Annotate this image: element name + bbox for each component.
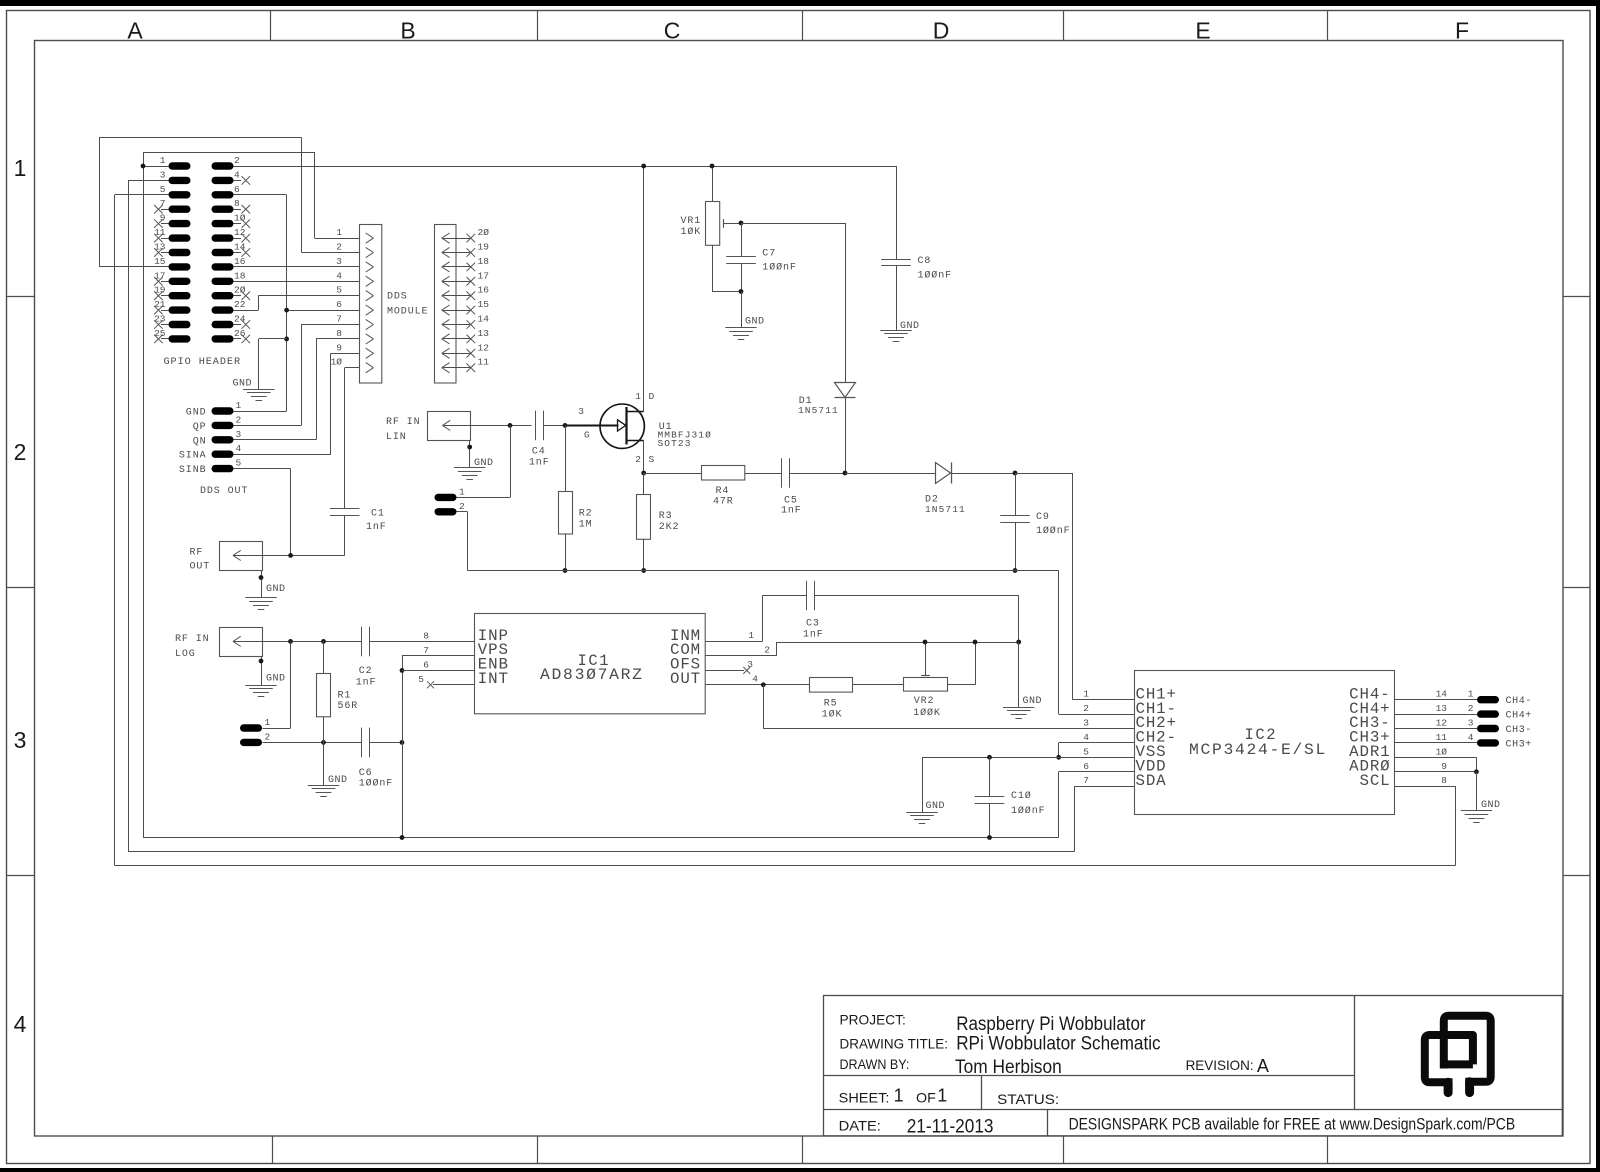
resistor R1 56R bbox=[323, 641, 325, 673]
svg-text:14: 14 bbox=[478, 314, 490, 325]
svg-text:1ØØnF: 1ØØnF bbox=[918, 270, 953, 282]
svg-text:MODULE: MODULE bbox=[387, 307, 428, 318]
wire: R1 bottom to ground bbox=[323, 742, 325, 785]
svg-text:2K2: 2K2 bbox=[659, 522, 680, 533]
svg-text:G: G bbox=[584, 430, 590, 441]
capacitor C6 100nF bbox=[361, 728, 363, 758]
wire: GPIO pin16 to DDS pin3 bbox=[234, 266, 360, 268]
wire: source down bbox=[643, 440, 645, 473]
potentiometer VR1 10K bbox=[712, 166, 714, 202]
svg-text:1ØØnF: 1ØØnF bbox=[762, 262, 797, 274]
svg-text:16: 16 bbox=[234, 256, 246, 267]
junction R1 bottom bbox=[321, 740, 326, 745]
wire: ADR to ground bbox=[1476, 772, 1478, 811]
svg-text:RF: RF bbox=[190, 548, 204, 559]
wire: SINA to DDS pin9 bbox=[234, 454, 331, 456]
svg-text:STATUS:: STATUS: bbox=[997, 1091, 1059, 1107]
wire: GPIO pin6 GND net bbox=[234, 194, 287, 196]
svg-text:GND: GND bbox=[266, 674, 286, 685]
junction C9 bottom bbox=[1013, 568, 1018, 573]
svg-text:3: 3 bbox=[747, 659, 753, 670]
svg-text:SOT23: SOT23 bbox=[658, 438, 692, 449]
svg-text:2Ø: 2Ø bbox=[478, 227, 490, 238]
wire: VPS pin7 riser bbox=[402, 655, 474, 657]
svg-text:SDA: SDA bbox=[1136, 772, 1167, 790]
svg-text:8: 8 bbox=[1441, 775, 1447, 786]
DesignSpark logo bbox=[1425, 1016, 1491, 1083]
svg-text:1ØØnF: 1ØØnF bbox=[359, 778, 394, 790]
capacitor C7 100nF bbox=[741, 223, 743, 256]
svg-text:CH3-: CH3- bbox=[1506, 725, 1532, 736]
wire: COM pin2 net bbox=[705, 655, 776, 657]
svg-text:2: 2 bbox=[635, 454, 641, 465]
DDS module connector left pins 1-10 bbox=[360, 225, 382, 384]
wire: D2 out to CH1+ bbox=[1015, 473, 1073, 475]
svg-text:1nF: 1nF bbox=[366, 522, 387, 533]
RF IN LIN ground stem bbox=[469, 440, 471, 468]
svg-text:R5: R5 bbox=[824, 699, 838, 710]
GPIO unused pin X marks left bbox=[161, 209, 169, 211]
capacitor C10 100nF bbox=[989, 757, 991, 796]
svg-text:4: 4 bbox=[1468, 732, 1474, 743]
IC IC1 AD8307ARZ body bbox=[475, 614, 706, 714]
svg-text:1: 1 bbox=[635, 391, 641, 402]
svg-text:B: B bbox=[400, 18, 415, 44]
svg-text:1M: 1M bbox=[579, 520, 593, 531]
wire: branch to ground bbox=[259, 338, 287, 340]
DDS module connector right pins 20-11 bbox=[435, 225, 457, 384]
wire: CH2- pin4 bbox=[1059, 742, 1134, 744]
svg-text:F: F bbox=[1455, 18, 1469, 44]
svg-text:4: 4 bbox=[234, 169, 240, 180]
svg-text:11: 11 bbox=[478, 357, 490, 368]
svg-text:GND: GND bbox=[328, 775, 348, 786]
svg-text:7: 7 bbox=[336, 314, 342, 325]
wire: GPIO pin15 to DDS pin2 bbox=[99, 266, 169, 268]
svg-text:2: 2 bbox=[234, 155, 240, 166]
svg-text:QP: QP bbox=[193, 422, 207, 433]
svg-text:E: E bbox=[1195, 18, 1210, 44]
svg-text:GND: GND bbox=[900, 321, 920, 332]
svg-text:REVISION:: REVISION: bbox=[1186, 1057, 1254, 1073]
svg-text:CH3+: CH3+ bbox=[1506, 739, 1532, 750]
svg-text:17: 17 bbox=[478, 270, 489, 281]
diode D2 1N5711 bbox=[936, 463, 951, 484]
junction pad1 riser LOG bbox=[288, 639, 293, 644]
junction SINB/RFOUT bbox=[288, 553, 293, 558]
GPIO unused pin X marks right bbox=[234, 180, 242, 182]
svg-text:GND: GND bbox=[474, 458, 494, 469]
svg-text:6: 6 bbox=[1083, 761, 1089, 772]
wire: ADR0 pin9 bbox=[1394, 771, 1476, 773]
wire: ADR1 pin10 bbox=[1394, 757, 1476, 759]
svg-text:SHEET:: SHEET: bbox=[839, 1090, 890, 1106]
IC IC2 MCP3424-E/SL body bbox=[1135, 671, 1395, 815]
ground at RF IN LIN bbox=[454, 467, 485, 469]
capacitor C1 1nF bbox=[330, 508, 360, 510]
svg-text:4: 4 bbox=[1083, 732, 1089, 743]
junction VR1 wiper node bbox=[739, 221, 744, 226]
junction C10 top bbox=[987, 755, 992, 760]
svg-text:8: 8 bbox=[423, 631, 429, 642]
svg-text:2: 2 bbox=[236, 414, 242, 425]
wire: OFS pin3 no-connect bbox=[705, 670, 744, 672]
junction D1/C5/R4 bbox=[843, 471, 848, 476]
svg-text:15: 15 bbox=[154, 256, 166, 267]
svg-text:1ØØnF: 1ØØnF bbox=[1036, 525, 1071, 537]
svg-text:A: A bbox=[127, 18, 143, 44]
svg-text:1ØK: 1ØK bbox=[681, 226, 702, 238]
svg-text:5: 5 bbox=[160, 184, 166, 195]
svg-text:18: 18 bbox=[234, 270, 246, 281]
svg-text:DDS OUT: DDS OUT bbox=[200, 486, 248, 497]
svg-text:AD83Ø7ARZ: AD83Ø7ARZ bbox=[540, 666, 644, 684]
svg-text:2: 2 bbox=[1468, 703, 1474, 714]
svg-text:3: 3 bbox=[14, 727, 27, 753]
RF IN LIN pads 1,2 bbox=[435, 494, 457, 501]
junction R1 top bbox=[321, 639, 326, 644]
svg-text:RPi Wobbulator Schematic: RPi Wobbulator Schematic bbox=[956, 1034, 1161, 1055]
svg-text:1nF: 1nF bbox=[356, 678, 377, 689]
svg-text:5: 5 bbox=[336, 285, 342, 296]
resistor R5 10K bbox=[810, 678, 853, 693]
svg-text:CH4-: CH4- bbox=[1506, 696, 1532, 707]
svg-text:GPIO HEADER: GPIO HEADER bbox=[164, 357, 242, 368]
junction C3/COM bbox=[1016, 640, 1021, 645]
svg-text:4: 4 bbox=[236, 443, 242, 454]
svg-text:1: 1 bbox=[459, 486, 465, 497]
svg-text:3: 3 bbox=[1083, 718, 1089, 729]
svg-text:R2: R2 bbox=[579, 509, 593, 520]
junction C6/riser bbox=[400, 740, 405, 745]
svg-text:C9: C9 bbox=[1036, 512, 1050, 523]
resistor R4 47R bbox=[644, 473, 702, 475]
capacitor C9 100nF bbox=[1015, 473, 1017, 516]
RF IN LOG pads 1,2 bbox=[240, 724, 262, 731]
svg-text:GND: GND bbox=[926, 801, 946, 812]
wire: GPIO pin2 top rail bbox=[234, 166, 897, 168]
svg-text:C3: C3 bbox=[806, 619, 820, 630]
svg-text:OUT: OUT bbox=[190, 562, 211, 573]
svg-text:1nF: 1nF bbox=[803, 630, 824, 641]
svg-text:4: 4 bbox=[14, 1011, 27, 1037]
junction source node bbox=[641, 471, 646, 476]
svg-text:RF IN: RF IN bbox=[175, 634, 210, 645]
GPIO header 26-pin pads bbox=[169, 162, 191, 169]
svg-text:OUT: OUT bbox=[670, 670, 701, 688]
wire: GND pad bbox=[234, 411, 287, 413]
RF OUT connector bbox=[220, 542, 263, 571]
junction R3/gnd rail bbox=[641, 568, 646, 573]
svg-text:D: D bbox=[649, 391, 655, 402]
diode D1 1N5711 bbox=[835, 383, 856, 398]
junction VR1/top rail bbox=[710, 164, 715, 169]
svg-text:1: 1 bbox=[937, 1086, 947, 1106]
svg-text:5: 5 bbox=[236, 458, 242, 469]
wire: node to D2 bbox=[845, 473, 936, 475]
svg-text:1: 1 bbox=[336, 227, 342, 238]
svg-text:8: 8 bbox=[336, 328, 342, 339]
svg-text:1N5711: 1N5711 bbox=[798, 405, 839, 416]
svg-text:S: S bbox=[649, 454, 655, 465]
svg-text:21-11-2013: 21-11-2013 bbox=[907, 1117, 994, 1138]
svg-text:13: 13 bbox=[478, 328, 490, 339]
wire: GPIO pin18 to DDS pin4 bbox=[234, 281, 360, 283]
svg-text:1: 1 bbox=[748, 630, 754, 641]
svg-text:SCL: SCL bbox=[1360, 772, 1391, 790]
svg-text:1: 1 bbox=[14, 155, 27, 181]
junction riser/VDD rail bbox=[400, 835, 405, 840]
wire: DDS pin10 to C1 bbox=[345, 367, 359, 369]
ground at RF IN LOG bbox=[245, 685, 276, 687]
svg-text:5: 5 bbox=[1083, 746, 1089, 757]
DDS OUT connector pads GND,QP,QN,SINA,SINB bbox=[212, 407, 234, 414]
svg-text:RF IN: RF IN bbox=[386, 417, 421, 428]
capacitor C2 1nF bbox=[361, 627, 363, 657]
svg-text:A: A bbox=[1257, 1056, 1269, 1076]
svg-text:3: 3 bbox=[160, 169, 166, 180]
svg-text:5: 5 bbox=[418, 674, 424, 685]
wire: CH1- pin2 bbox=[1059, 714, 1134, 716]
capacitor C4 1nF bbox=[535, 411, 537, 441]
svg-text:C1: C1 bbox=[371, 509, 385, 520]
wire: ENB pin6 bbox=[402, 670, 474, 672]
svg-text:C: C bbox=[664, 18, 681, 44]
svg-text:OF: OF bbox=[916, 1090, 936, 1106]
svg-text:C1Ø: C1Ø bbox=[1011, 790, 1032, 802]
wire: LOG to C2/INP bbox=[262, 641, 362, 643]
svg-text:1Ø: 1Ø bbox=[331, 357, 343, 368]
wire: OUT pin4 bbox=[705, 684, 810, 686]
svg-text:SINB: SINB bbox=[179, 465, 207, 476]
wire: RF OUT node bbox=[262, 555, 345, 557]
svg-text:C2: C2 bbox=[359, 666, 373, 677]
svg-text:DRAWN BY:: DRAWN BY: bbox=[840, 1056, 910, 1072]
svg-text:6: 6 bbox=[336, 299, 342, 310]
svg-text:56R: 56R bbox=[338, 701, 359, 712]
svg-text:1: 1 bbox=[1468, 689, 1474, 700]
svg-text:1: 1 bbox=[160, 155, 166, 166]
svg-text:DDS: DDS bbox=[387, 292, 408, 303]
svg-text:C8: C8 bbox=[918, 256, 932, 267]
resistor R3 2K2 bbox=[643, 473, 645, 494]
svg-text:1: 1 bbox=[894, 1086, 904, 1106]
svg-text:VR1: VR1 bbox=[681, 216, 702, 227]
ground at COM bbox=[1003, 707, 1034, 709]
wire: C7 to ground bbox=[741, 292, 743, 328]
svg-text:DRAWING TITLE:: DRAWING TITLE: bbox=[840, 1036, 949, 1052]
junction C10 bottom/VDD rail bbox=[987, 835, 992, 840]
junction C7 bottom bbox=[739, 289, 744, 294]
RF IN LIN connector bbox=[428, 412, 471, 441]
svg-text:4: 4 bbox=[752, 674, 758, 685]
ground under GPIO header bbox=[243, 389, 274, 391]
svg-text:1: 1 bbox=[265, 717, 271, 728]
svg-text:GND: GND bbox=[1023, 696, 1043, 707]
svg-text:1nF: 1nF bbox=[529, 458, 550, 469]
svg-text:DESIGNSPARK PCB available for: DESIGNSPARK PCB available for FREE at ww… bbox=[1069, 1114, 1516, 1133]
svg-text:2: 2 bbox=[265, 731, 271, 742]
wire: QP to DDS pin7 bbox=[234, 425, 302, 427]
gnd rail mid bbox=[468, 570, 1059, 572]
svg-text:GND: GND bbox=[266, 584, 286, 595]
wire: COM to ground bbox=[1018, 642, 1020, 707]
RF IN LOG connector bbox=[220, 628, 263, 657]
junction ENB bbox=[400, 668, 405, 673]
svg-text:2: 2 bbox=[14, 439, 27, 465]
svg-text:MCP3424-E/SL: MCP3424-E/SL bbox=[1189, 741, 1327, 759]
svg-text:DATE:: DATE: bbox=[839, 1118, 881, 1134]
wire: CH1+ pin1 bbox=[1073, 699, 1135, 701]
wire: GPIO pin22 to DDS pin5 bbox=[234, 310, 259, 312]
svg-text:6: 6 bbox=[234, 184, 240, 195]
wire: pad2 to gnd rail bbox=[457, 511, 468, 513]
IC1 pin5 INT no-connect bbox=[433, 684, 474, 686]
svg-text:2: 2 bbox=[459, 501, 465, 512]
svg-text:1N5711: 1N5711 bbox=[925, 504, 966, 515]
svg-text:C7: C7 bbox=[762, 248, 776, 259]
svg-text:19: 19 bbox=[478, 242, 490, 253]
svg-text:PROJECT:: PROJECT: bbox=[840, 1012, 906, 1028]
svg-text:16: 16 bbox=[478, 285, 490, 296]
junction VR2 right/COM bbox=[973, 640, 978, 645]
wire: wiper to D1 bbox=[741, 223, 845, 225]
svg-text:LIN: LIN bbox=[386, 432, 407, 443]
title block box bbox=[824, 996, 1563, 1136]
junction C9 top bbox=[1013, 471, 1018, 476]
svg-text:1ØØnF: 1ØØnF bbox=[1011, 805, 1046, 817]
wire: QN to DDS pin8 bbox=[234, 439, 317, 441]
svg-text:GND: GND bbox=[745, 316, 765, 327]
svg-text:1Ø: 1Ø bbox=[1436, 746, 1448, 757]
VDD rail bottom bbox=[143, 837, 1059, 839]
ground at VSS bbox=[906, 812, 937, 814]
wire: pad2 to C6 bbox=[263, 742, 362, 744]
svg-text:8: 8 bbox=[234, 198, 240, 209]
wire: INM pin1 to C3 bbox=[705, 641, 763, 643]
svg-text:3: 3 bbox=[236, 429, 242, 440]
svg-text:C6: C6 bbox=[359, 768, 373, 779]
junction CH2-/VSS bbox=[1056, 755, 1061, 760]
svg-text:3: 3 bbox=[336, 256, 342, 267]
wire: SINB down to RF OUT bbox=[234, 468, 291, 470]
svg-text:Raspberry Pi Wobbulator: Raspberry Pi Wobbulator bbox=[956, 1014, 1146, 1035]
svg-text:14: 14 bbox=[1436, 689, 1448, 700]
transistor U1 MMBFJ310 JFET bbox=[600, 404, 644, 448]
capacitor C5 1nF bbox=[781, 458, 783, 488]
RF OUT ground stem bbox=[261, 570, 263, 598]
svg-text:12: 12 bbox=[1436, 718, 1448, 729]
svg-text:1: 1 bbox=[1083, 689, 1089, 700]
svg-text:2: 2 bbox=[764, 645, 770, 656]
ground at C7 bbox=[725, 327, 756, 329]
ground at ADR bbox=[1461, 810, 1492, 812]
svg-text:SINA: SINA bbox=[179, 451, 207, 462]
svg-text:15: 15 bbox=[478, 299, 490, 310]
svg-text:6: 6 bbox=[423, 659, 429, 670]
wire: LIN to C4 bbox=[471, 425, 532, 427]
svg-text:3: 3 bbox=[1468, 718, 1474, 729]
junction VR2 wiper/COM bbox=[923, 640, 928, 645]
wire: GPIO pin5 SCL net bbox=[115, 194, 169, 196]
svg-text:1nF: 1nF bbox=[781, 506, 802, 517]
svg-text:3: 3 bbox=[578, 406, 584, 417]
potentiometer VR2 100K bbox=[904, 678, 948, 692]
IC2 right pads CH4-,CH4+,CH3-,CH3+ bbox=[1394, 699, 1477, 701]
wire: VSS pin5 net bbox=[922, 757, 1134, 759]
resistor R2 1M bbox=[565, 425, 567, 491]
svg-text:VR2: VR2 bbox=[914, 696, 935, 707]
svg-text:GND: GND bbox=[232, 378, 252, 389]
svg-text:13: 13 bbox=[1436, 703, 1448, 714]
svg-text:11: 11 bbox=[1436, 732, 1448, 743]
svg-text:INT: INT bbox=[478, 670, 509, 688]
junction pad1 riser bbox=[508, 423, 513, 428]
svg-text:9: 9 bbox=[336, 342, 342, 353]
wire: GPIO pin3 SDA net bbox=[128, 180, 169, 182]
svg-text:GND: GND bbox=[186, 408, 207, 419]
junction drain/top rail bbox=[641, 164, 646, 169]
junction GND/DDS6 bbox=[284, 308, 289, 313]
svg-text:12: 12 bbox=[478, 342, 490, 353]
svg-text:R3: R3 bbox=[659, 511, 673, 522]
svg-text:QN: QN bbox=[193, 436, 207, 447]
svg-text:22: 22 bbox=[234, 299, 246, 310]
ground at C8 bbox=[880, 330, 911, 332]
svg-text:4: 4 bbox=[336, 270, 342, 281]
svg-text:7: 7 bbox=[1083, 775, 1089, 786]
svg-text:47R: 47R bbox=[713, 496, 734, 507]
ground at RF OUT bbox=[245, 597, 276, 599]
svg-text:2: 2 bbox=[1083, 703, 1089, 714]
capacitor C3 1nF bbox=[806, 581, 808, 611]
junction R2/gnd rail bbox=[563, 568, 568, 573]
svg-text:9: 9 bbox=[1441, 761, 1447, 772]
svg-text:R1: R1 bbox=[338, 691, 352, 702]
wire: GPIO pin1 3V3 net to DDS pin1 and VDD rail bbox=[143, 166, 169, 168]
junction GPIO pin1 bbox=[141, 164, 146, 169]
junction gate node bbox=[563, 423, 568, 428]
svg-text:18: 18 bbox=[478, 256, 490, 267]
junction GND branch bbox=[284, 337, 289, 342]
wire: OUT to CH2+ bbox=[763, 685, 765, 729]
svg-text:CH4+: CH4+ bbox=[1506, 711, 1532, 722]
svg-text:D: D bbox=[933, 18, 950, 44]
junction ADR1/ADR0 bbox=[1474, 769, 1479, 774]
wire: pad1 up to LOG input bbox=[263, 728, 291, 730]
svg-text:1ØK: 1ØK bbox=[822, 709, 843, 721]
svg-text:7: 7 bbox=[423, 645, 429, 656]
svg-text:LOG: LOG bbox=[175, 649, 196, 660]
ground at R1 bbox=[308, 785, 339, 787]
capacitor C8 100nF bbox=[896, 166, 898, 259]
svg-text:C4: C4 bbox=[532, 447, 546, 458]
RF IN LOG ground stem bbox=[261, 657, 263, 686]
svg-text:1: 1 bbox=[236, 400, 242, 411]
svg-text:2: 2 bbox=[336, 242, 342, 253]
wire: pad1 to LIN input bbox=[457, 497, 511, 499]
svg-text:GND: GND bbox=[1481, 800, 1501, 811]
wire: drain to top rail bbox=[643, 166, 645, 412]
junction OUT bbox=[761, 682, 766, 687]
svg-text:1ØØK: 1ØØK bbox=[913, 707, 941, 719]
svg-text:Tom Herbison: Tom Herbison bbox=[955, 1057, 1062, 1078]
